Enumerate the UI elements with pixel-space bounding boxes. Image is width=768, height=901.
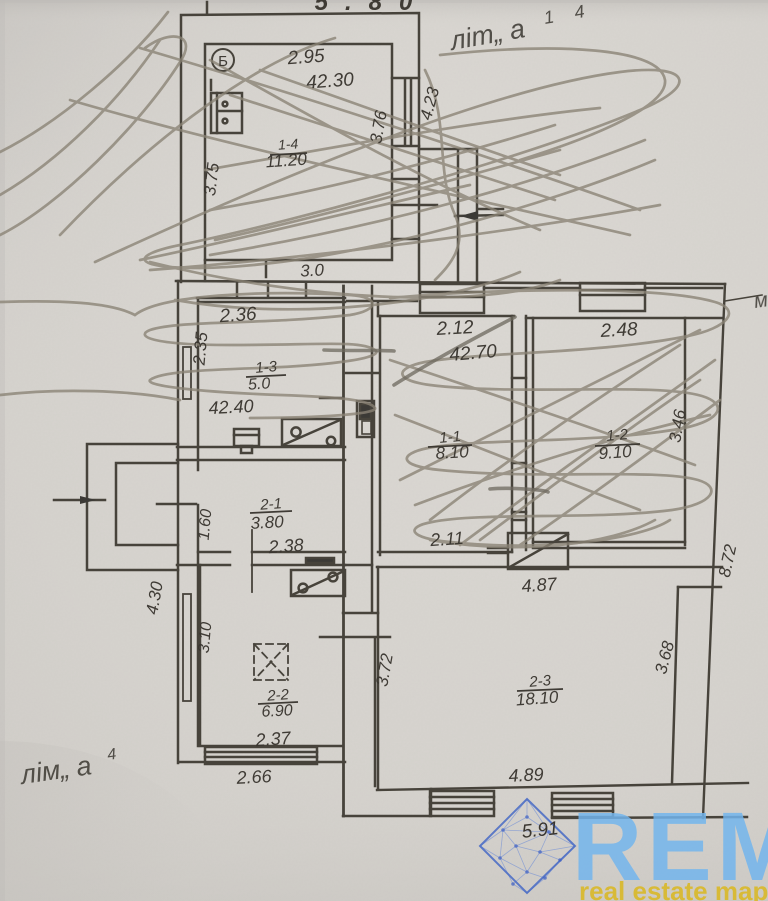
svg-text:18.10: 18.10 xyxy=(515,687,559,709)
svg-text:3.0: 3.0 xyxy=(300,260,325,280)
svg-text:2.11: 2.11 xyxy=(429,528,465,550)
svg-text:2.66: 2.66 xyxy=(235,766,273,788)
svg-text:5.0: 5.0 xyxy=(247,375,270,394)
svg-text:2.48: 2.48 xyxy=(599,319,638,342)
svg-text:2.12: 2.12 xyxy=(435,317,474,340)
svg-text:2.36: 2.36 xyxy=(218,304,258,328)
svg-text:3.10: 3.10 xyxy=(196,621,216,654)
svg-text:42.70: 42.70 xyxy=(449,341,499,366)
svg-text:2.38: 2.38 xyxy=(267,535,304,557)
svg-text:3.75: 3.75 xyxy=(200,161,223,197)
svg-text:2.95: 2.95 xyxy=(286,46,326,70)
svg-text:3.80: 3.80 xyxy=(250,512,285,533)
svg-text:5.80: 5.80 xyxy=(315,0,430,16)
svg-text:4.89: 4.89 xyxy=(508,764,544,786)
svg-text:2.35: 2.35 xyxy=(190,331,212,367)
svg-text:1.60: 1.60 xyxy=(196,508,216,541)
svg-text:4.87: 4.87 xyxy=(521,574,558,596)
svg-text:42.40: 42.40 xyxy=(208,396,254,418)
svg-text:1-3: 1-3 xyxy=(255,358,279,377)
svg-text:м: м xyxy=(753,289,768,313)
svg-text:9.10: 9.10 xyxy=(598,442,633,463)
svg-text:5.91: 5.91 xyxy=(521,818,560,843)
svg-text:42.30: 42.30 xyxy=(306,69,355,93)
svg-text:11.20: 11.20 xyxy=(265,150,308,172)
svg-text:Б: Б xyxy=(218,53,228,70)
svg-text:real estate map: real estate map xyxy=(579,876,768,901)
svg-text:2.37: 2.37 xyxy=(254,728,292,751)
svg-text:6.90: 6.90 xyxy=(261,702,293,721)
svg-text:8.10: 8.10 xyxy=(435,442,470,463)
